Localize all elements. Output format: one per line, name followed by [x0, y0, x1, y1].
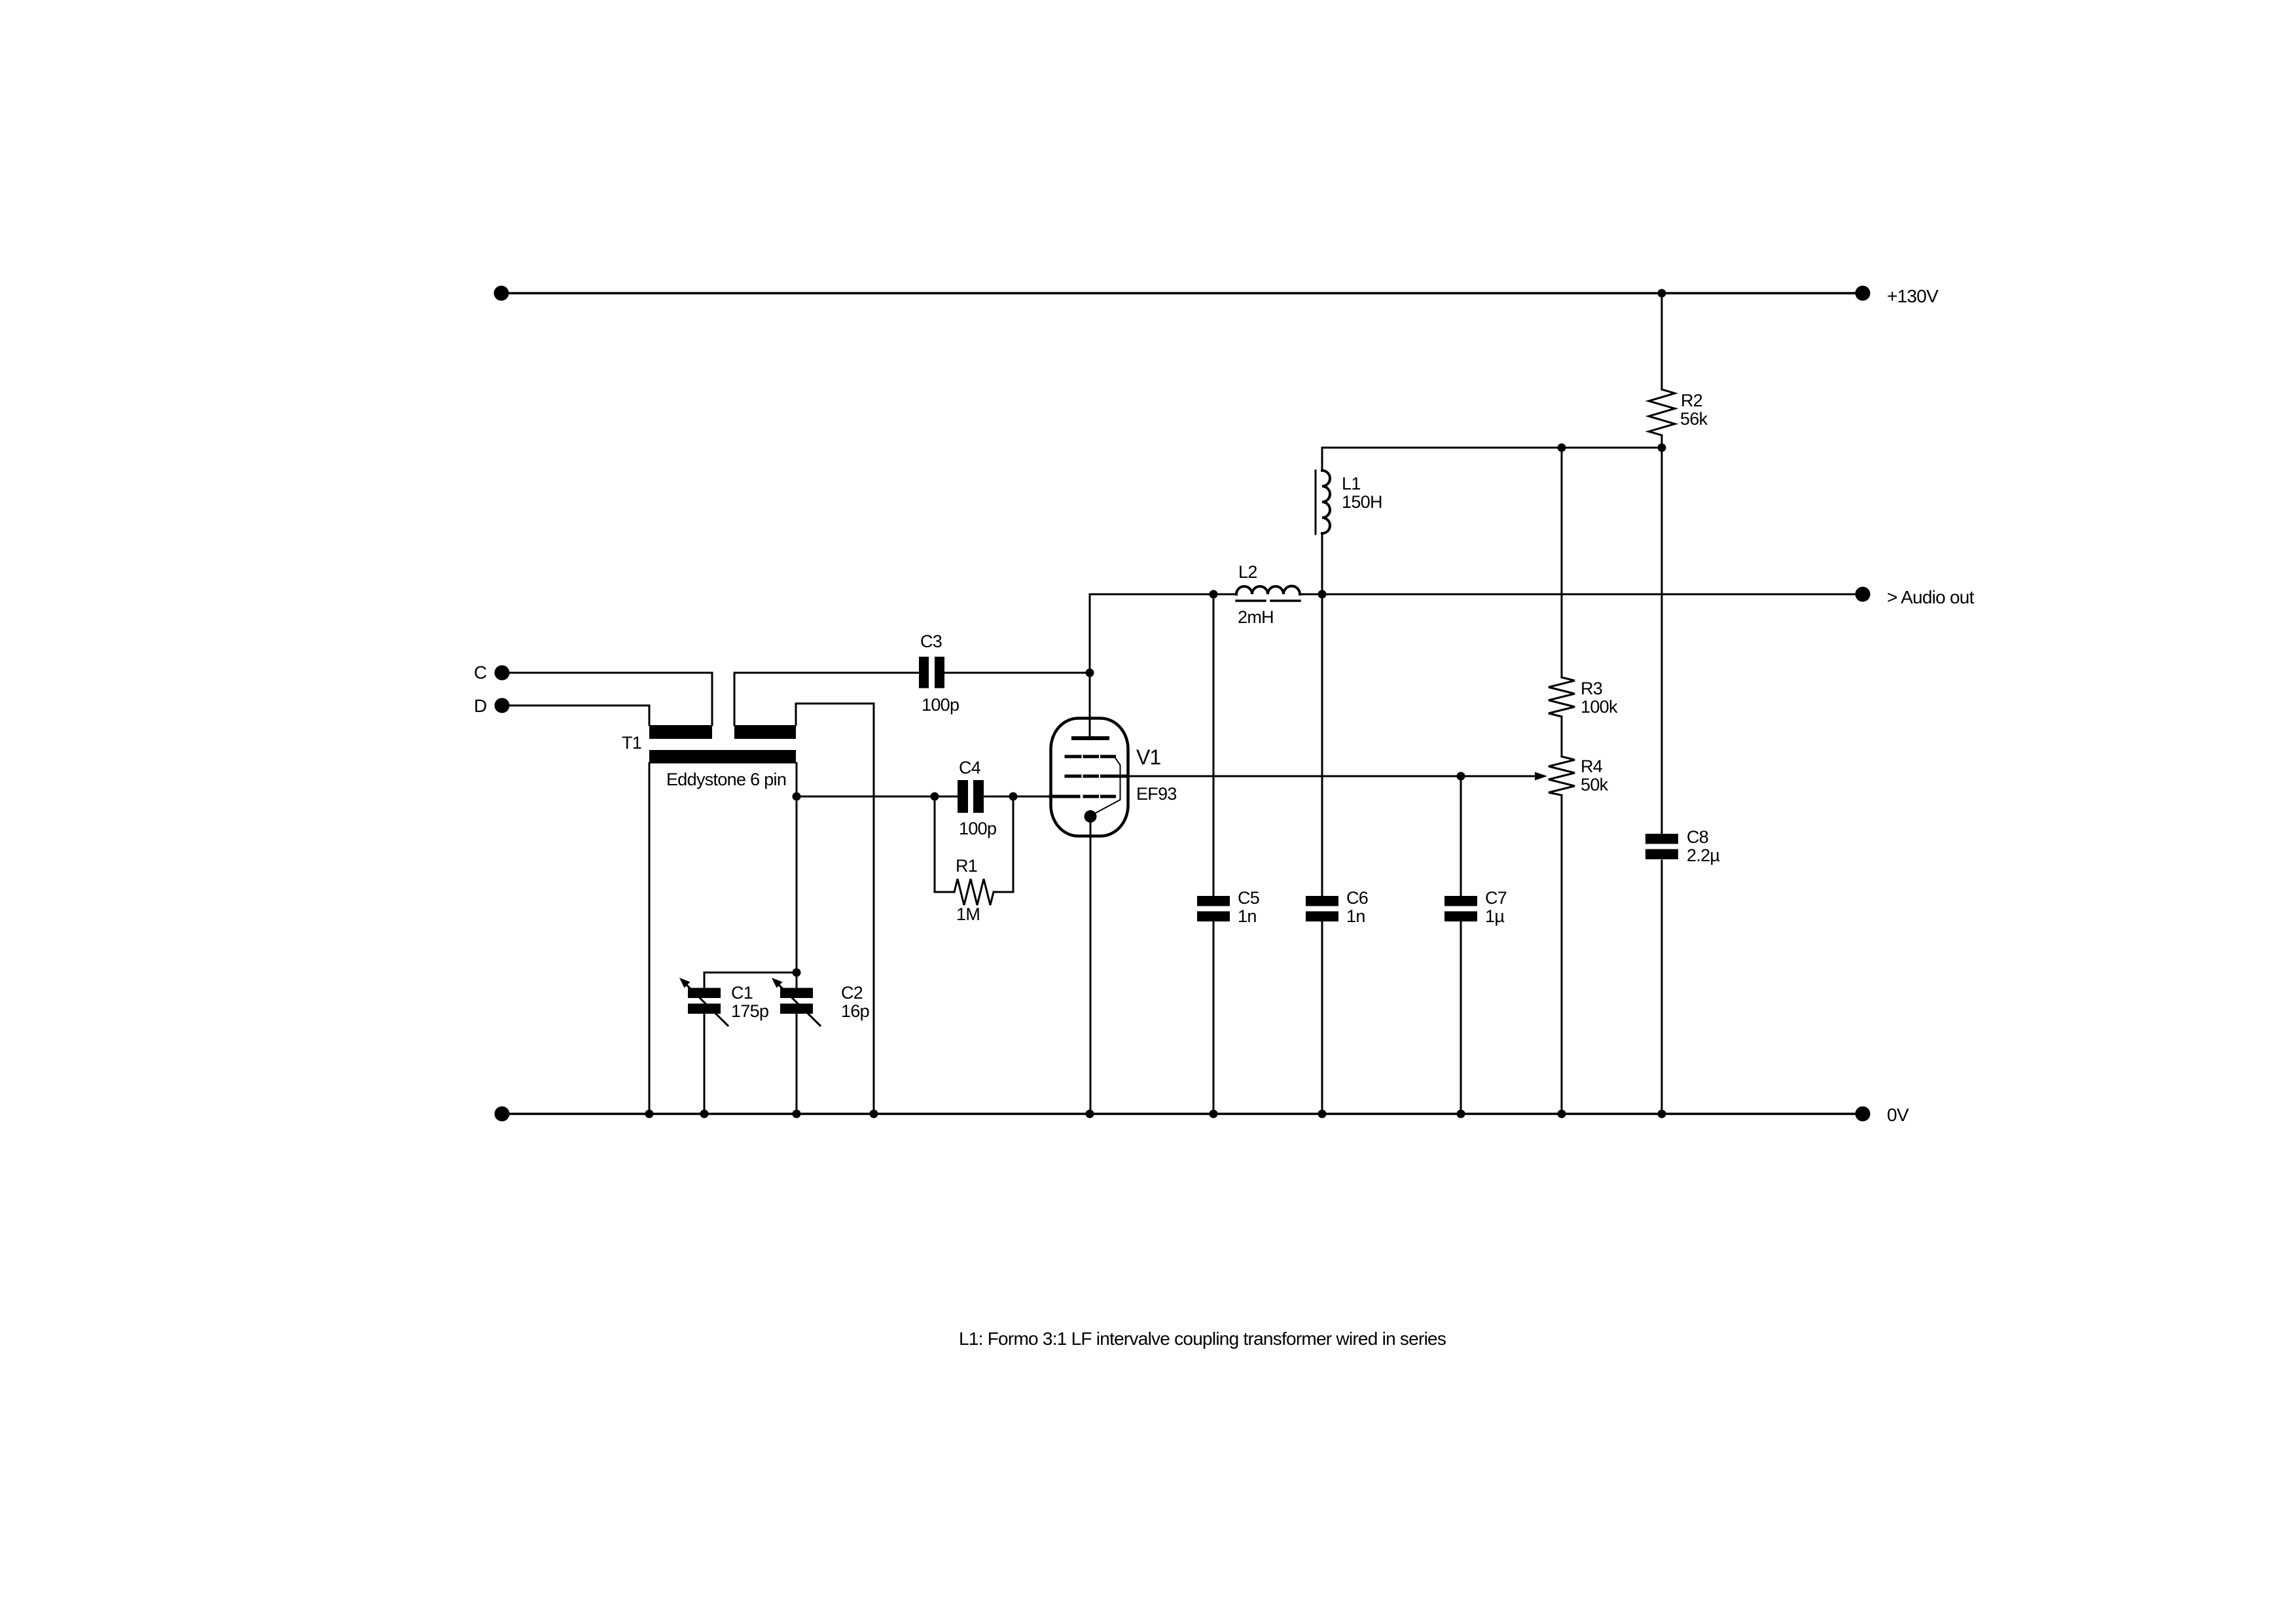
svg-text:56k: 56k — [1680, 409, 1708, 429]
svg-text:1n: 1n — [1238, 906, 1257, 926]
svg-text:100p: 100p — [922, 695, 959, 715]
svg-text:C4: C4 — [959, 758, 981, 777]
svg-text:R4: R4 — [1581, 757, 1603, 776]
svg-text:Eddystone 6 pin: Eddystone 6 pin — [666, 770, 786, 789]
svg-text:L2: L2 — [1238, 562, 1257, 582]
svg-text:150H: 150H — [1342, 492, 1382, 512]
svg-text:EF93: EF93 — [1136, 784, 1177, 804]
svg-text:C5: C5 — [1238, 888, 1259, 908]
svg-text:1µ: 1µ — [1485, 906, 1504, 926]
svg-text:50k: 50k — [1581, 775, 1609, 794]
svg-text:C1: C1 — [731, 983, 753, 1003]
svg-text:1M: 1M — [956, 904, 980, 924]
svg-text:100p: 100p — [959, 819, 996, 838]
svg-text:> Audio out: > Audio out — [1887, 587, 1975, 607]
svg-text:T1: T1 — [622, 733, 641, 753]
svg-text:16p: 16p — [841, 1001, 869, 1021]
svg-text:V1: V1 — [1136, 745, 1160, 769]
svg-text:+130V: +130V — [1887, 286, 1939, 306]
svg-text:L1: L1 — [1342, 474, 1361, 493]
svg-text:2.2µ: 2.2µ — [1687, 846, 1719, 865]
svg-text:0V: 0V — [1887, 1105, 1909, 1125]
svg-text:C8: C8 — [1687, 827, 1708, 847]
svg-text:1n: 1n — [1346, 906, 1365, 926]
svg-text:175p: 175p — [731, 1001, 768, 1021]
svg-text:C: C — [474, 662, 487, 683]
svg-text:C7: C7 — [1485, 888, 1507, 908]
svg-text:D: D — [474, 696, 486, 716]
svg-text:100k: 100k — [1581, 697, 1618, 717]
svg-text:C6: C6 — [1346, 888, 1368, 908]
svg-text:L1: Formo 3:1 LF intervalve co: L1: Formo 3:1 LF intervalve coupling tra… — [959, 1329, 1446, 1349]
svg-text:R2: R2 — [1681, 391, 1702, 410]
svg-text:2mH: 2mH — [1238, 607, 1274, 627]
svg-text:C3: C3 — [920, 632, 942, 651]
svg-text:R3: R3 — [1581, 679, 1602, 698]
svg-text:C2: C2 — [841, 983, 863, 1003]
svg-text:R1: R1 — [956, 856, 977, 876]
